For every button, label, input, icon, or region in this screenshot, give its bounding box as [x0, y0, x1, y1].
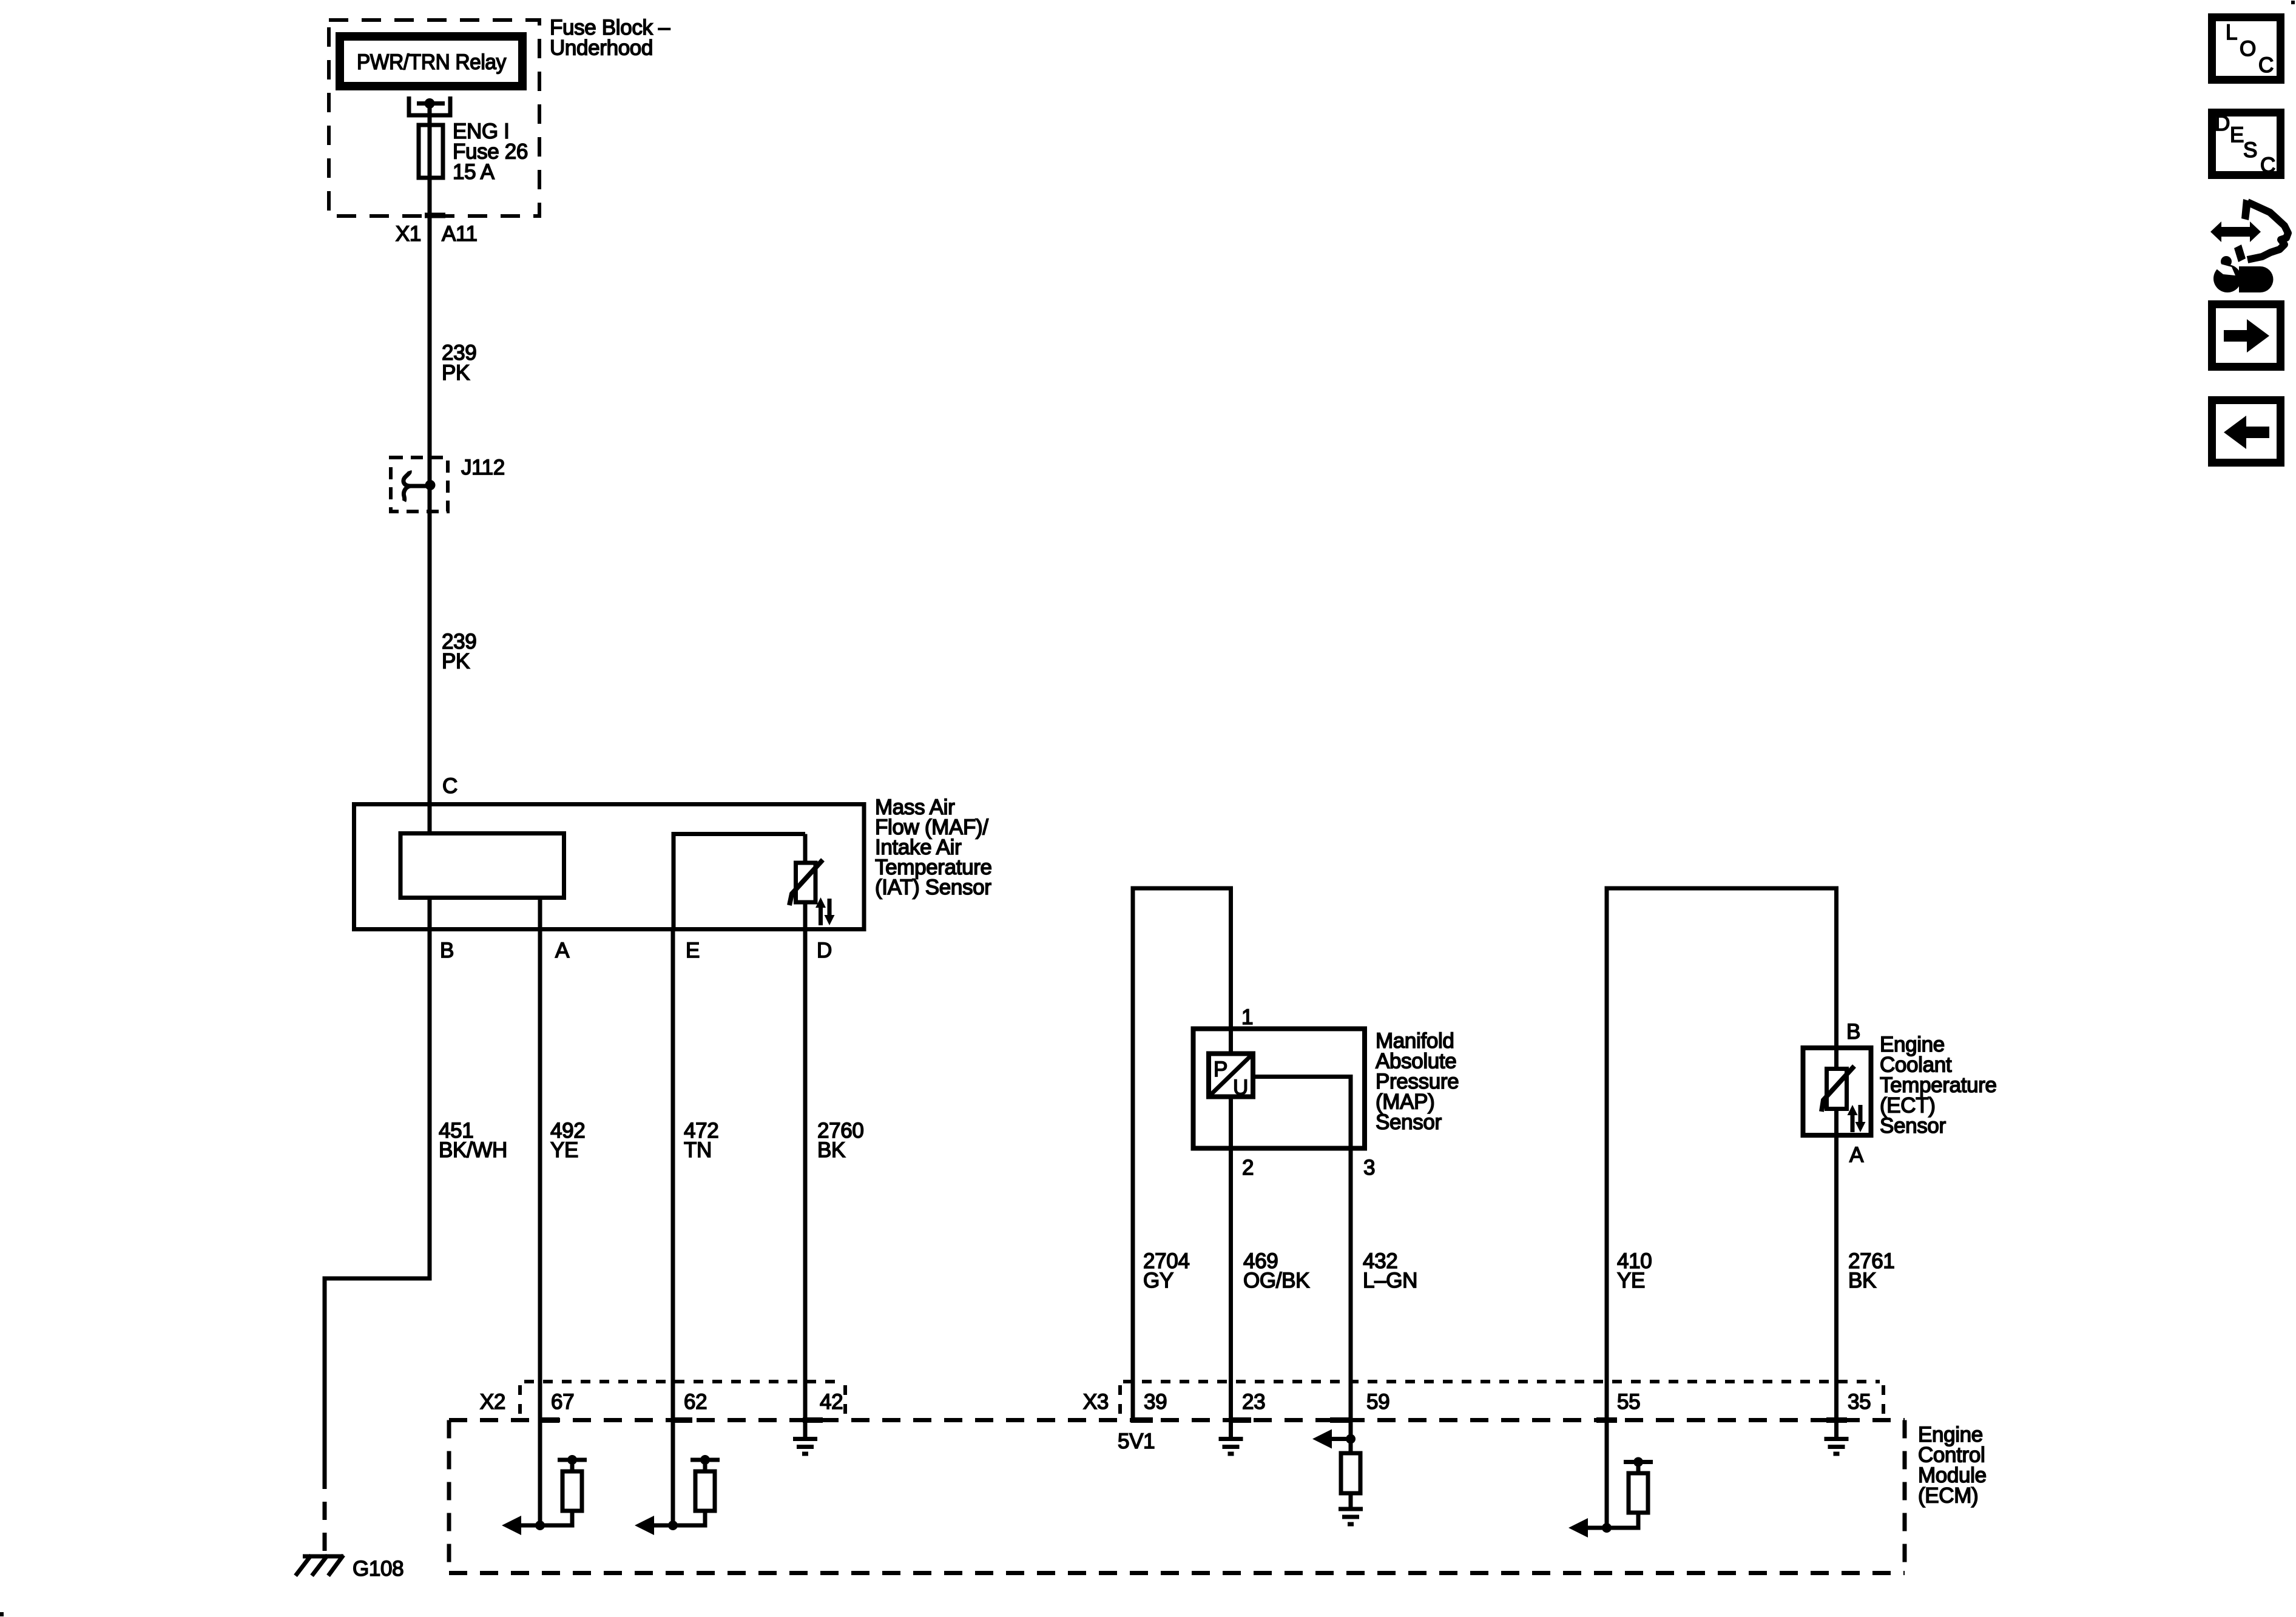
- IAT thermistor strike: [789, 860, 823, 905]
- svg-text:23: 23: [1242, 1390, 1265, 1414]
- svg-text:C: C: [442, 774, 458, 798]
- MAF/IAT sensor outer box: [354, 805, 865, 930]
- svg-text:E: E: [686, 939, 700, 962]
- svg-text:A: A: [555, 939, 570, 962]
- pull-up resistor at pin 67: [540, 1511, 572, 1525]
- svg-text:B: B: [1846, 1020, 1860, 1044]
- svg-text:D: D: [817, 939, 832, 962]
- page corner mark bottom left: [0, 1612, 4, 1616]
- svg-text:BK: BK: [817, 1138, 845, 1162]
- wire: MAF pin A (492 YE): [538, 898, 542, 1526]
- ECT thermistor resistor body: [1827, 1069, 1847, 1109]
- MAP P/U transducer box: [1209, 1054, 1253, 1097]
- page corner mark top right: [2291, 1, 2295, 4]
- svg-text:PK: PK: [442, 650, 470, 673]
- IAT thermistor resistor body: [796, 863, 816, 902]
- svg-text:GY: GY: [1143, 1269, 1173, 1292]
- svg-text:42: 42: [820, 1390, 843, 1414]
- svg-text:35: 35: [1848, 1390, 1871, 1414]
- svg-text:J112: J112: [461, 456, 505, 479]
- svg-text:BK/WH: BK/WH: [439, 1138, 507, 1162]
- relay PWR/TRN Relay box: [340, 36, 522, 86]
- pin tick 39: [1133, 1417, 1153, 1423]
- wire: MAF pin B (451 BK/WH): [428, 898, 432, 1279]
- svg-text:PK: PK: [442, 361, 470, 385]
- wire: MAF pin E continuation (472 TN): [671, 930, 675, 1526]
- ground symbol at pin 23: [1219, 1437, 1243, 1441]
- wrench below hand: [2213, 265, 2241, 292]
- svg-text:67: 67: [551, 1390, 574, 1414]
- icon LOC box: [2212, 18, 2281, 80]
- svg-text:X2: X2: [480, 1390, 505, 1414]
- icon back arrow box: [2212, 400, 2281, 463]
- relay terminal crossbar: [417, 101, 445, 106]
- pull-up resistor at pin 55: [1607, 1513, 1638, 1528]
- ECT thermistor strike: [1822, 1066, 1854, 1112]
- connector X2 strip top dotted line: [524, 1380, 839, 1383]
- svg-text:(IAT) Sensor: (IAT) Sensor: [875, 876, 991, 899]
- svg-text:1: 1: [1241, 1005, 1253, 1029]
- svg-text:X3: X3: [1083, 1390, 1109, 1414]
- svg-text:62: 62: [684, 1390, 707, 1414]
- svg-text:59: 59: [1366, 1390, 1389, 1414]
- connector tick X1/A11: [425, 213, 445, 218]
- svg-text:39: 39: [1144, 1390, 1167, 1414]
- svg-text:Sensor: Sensor: [1376, 1110, 1442, 1134]
- wire 451 dashed continuation to G108: [323, 1471, 327, 1554]
- MAF sensing element box: [400, 834, 564, 898]
- svg-text:OG/BK: OG/BK: [1243, 1269, 1309, 1292]
- ECT sensor box: [1803, 1048, 1871, 1135]
- svg-text:G108: G108: [353, 1557, 403, 1581]
- 5V bar at pin 55: [1624, 1460, 1653, 1464]
- svg-text:E: E: [2230, 123, 2244, 147]
- pull-up resistor at pin 62: [673, 1511, 705, 1525]
- svg-text:(ECM): (ECM): [1918, 1484, 1978, 1508]
- svg-text:L–GN: L–GN: [1363, 1269, 1417, 1292]
- svg-text:55: 55: [1617, 1390, 1640, 1414]
- svg-text:YE: YE: [550, 1138, 578, 1162]
- svg-text:BK: BK: [1848, 1269, 1876, 1292]
- svg-text:X1: X1: [396, 222, 421, 246]
- svg-text:5V1: 5V1: [1118, 1430, 1155, 1453]
- icon hand with double arrow and wrench: [2210, 221, 2261, 242]
- wire: MAP internal to pin 3 (432 L-GN): [1253, 1077, 1351, 1439]
- arrow left at pin 67: [521, 1524, 540, 1528]
- svg-text:S: S: [2243, 138, 2257, 162]
- wire 2704 GY: X3 pin 39 up and over to MAP pin 1: [1133, 888, 1231, 1423]
- wire: ECT pin A (2761 BK): [1834, 1109, 1838, 1437]
- pin tick 62: [673, 1417, 692, 1423]
- pin tick 42: [803, 1417, 823, 1423]
- splice J112 symbol: [403, 471, 430, 486]
- svg-text:P: P: [1214, 1058, 1227, 1081]
- ECM dashed box: Engine Control Module (ECM): [449, 1418, 1905, 1422]
- pin tick 35: [1826, 1417, 1847, 1423]
- junction dot pin 59: [1346, 1434, 1356, 1444]
- svg-text:TN: TN: [684, 1138, 712, 1162]
- svg-text:Underhood: Underhood: [550, 36, 653, 60]
- connector X3 strip top dotted line: [1123, 1380, 1880, 1383]
- dot on 5V bar pin 67: [567, 1455, 577, 1465]
- relay output terminal bracket: [409, 96, 450, 115]
- arrow left at pin 62: [653, 1524, 673, 1528]
- svg-text:O: O: [2240, 37, 2256, 61]
- svg-text:YE: YE: [1617, 1269, 1645, 1292]
- fuse ENG I Fuse 26 15 A: [419, 125, 443, 178]
- pin tick 67: [540, 1417, 559, 1423]
- wire: MAP pin 2 (469 OG/BK): [1229, 1097, 1233, 1437]
- pin tick 55: [1596, 1417, 1617, 1423]
- wire 410 YE: X3 pin 55 up and over to ECT pin B: [1607, 888, 1837, 1528]
- wire: relay through fuse to MAF sensor (239 PK): [428, 104, 432, 834]
- wire: MAF pin D (2760 BK): [803, 902, 808, 1437]
- IAT thermistor lead: [803, 834, 808, 863]
- pin tick 23: [1231, 1417, 1252, 1423]
- fuse block dashed box: Fuse Block - Underhood: [329, 20, 539, 216]
- junction dot pin 62: [668, 1521, 678, 1530]
- wire: MAF pin E internal loop: [674, 834, 805, 930]
- icon forward arrow box: [2212, 305, 2281, 367]
- svg-text:U: U: [1233, 1076, 1248, 1099]
- ground symbol at pin 35: [1825, 1437, 1849, 1441]
- junction dot at relay terminal: [425, 98, 435, 109]
- pin tick 59: [1330, 1417, 1351, 1423]
- junction dot pin 67: [535, 1521, 545, 1530]
- icon DESC box: [2212, 113, 2281, 175]
- connector X3 right mini dashes: [1882, 1385, 1885, 1417]
- svg-text:PWR/TRN Relay: PWR/TRN Relay: [357, 50, 507, 74]
- ground symbol at pin 42: [793, 1437, 817, 1441]
- connector X2 right mini dashes: [843, 1385, 847, 1417]
- svg-text:Sensor: Sensor: [1880, 1114, 1946, 1138]
- P/U diagonal: [1211, 1056, 1251, 1095]
- svg-text:C: C: [2258, 53, 2274, 77]
- svg-text:C: C: [2260, 154, 2275, 177]
- dot on 5V bar pin 55: [1633, 1457, 1643, 1467]
- junction dot J112: [425, 480, 436, 490]
- svg-text:15 A: 15 A: [453, 160, 495, 184]
- connector X2 left mini dashes: [518, 1385, 522, 1417]
- pull-down resistor at pin 59: [1349, 1439, 1353, 1454]
- svg-text:D: D: [2215, 112, 2230, 135]
- ground symbol below resistor pin 59: [1339, 1507, 1363, 1511]
- svg-text:B: B: [440, 939, 454, 962]
- dot on 5V bar pin 62: [700, 1455, 710, 1465]
- arrow left at pin 59: [1331, 1437, 1351, 1441]
- MAP sensor box: [1194, 1029, 1365, 1149]
- IAT arrows up/down: [819, 906, 823, 925]
- arrow left at pin 55: [1587, 1526, 1607, 1530]
- 5V bar at pin 67: [558, 1458, 587, 1462]
- ground G108 chassis symbol: [303, 1555, 343, 1559]
- connector X3 left mini dashes: [1118, 1385, 1122, 1417]
- svg-text:A: A: [1849, 1143, 1864, 1167]
- 5V bar at pin 62: [690, 1458, 720, 1462]
- ECT arrows up/down: [1851, 1113, 1855, 1132]
- wire 451 BK/WH bend to ground: [325, 1278, 432, 1471]
- svg-text:L: L: [2226, 21, 2237, 44]
- junction dot pin 55: [1602, 1523, 1612, 1533]
- svg-text:2: 2: [1242, 1156, 1254, 1180]
- svg-text:3: 3: [1363, 1156, 1375, 1180]
- svg-text:A11: A11: [442, 222, 478, 246]
- splice J112 dashed box: [391, 457, 448, 511]
